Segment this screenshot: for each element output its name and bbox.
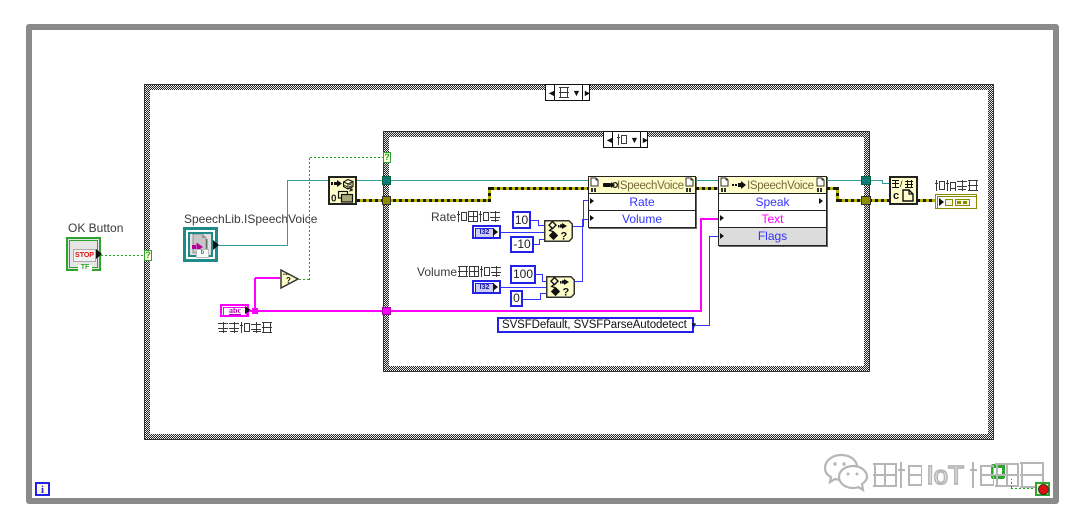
property node ISpeechVoice bbox=[588, 176, 696, 228]
wire teal refnum to automation open bbox=[218, 245, 288, 246]
wire blue ring to Flags bbox=[694, 325, 710, 326]
junction bbox=[252, 308, 258, 314]
wire teal invoke to close ref bbox=[827, 180, 883, 181]
label SpeechLib.ISpeechVoice bbox=[184, 213, 317, 225]
node Empty String/Path? bbox=[280, 269, 301, 290]
svg-text:0: 0 bbox=[331, 194, 337, 204]
label Volume音量调节 bbox=[417, 266, 502, 278]
tunnel teal (inner left) bbox=[382, 176, 391, 185]
OK Button output arrow bbox=[96, 249, 102, 259]
wire error automation open to property node bbox=[357, 199, 490, 202]
wire error close ref to indicator bbox=[917, 199, 935, 202]
tunnel olive (inner right) bbox=[861, 196, 871, 205]
watermark wechat logo bbox=[822, 453, 872, 498]
watermark text 玩转IoT物联网 (outline glyphs) bbox=[872, 462, 1044, 490]
selector label True bbox=[545, 84, 590, 101]
close reference node bbox=[889, 176, 918, 205]
refnum output arrow bbox=[213, 240, 219, 250]
wire magenta up to Text input bbox=[700, 218, 702, 312]
numeric control I32 Volume bbox=[472, 280, 501, 294]
label Rate语速调节 bbox=[431, 211, 501, 223]
label OK Button bbox=[68, 222, 123, 234]
numeric constant 100 bbox=[510, 265, 536, 284]
numeric constant 0 bbox=[510, 290, 523, 307]
wires blue rate group bbox=[531, 220, 539, 221]
indicator error out bbox=[935, 194, 977, 209]
label 错误输出 bbox=[935, 180, 979, 192]
case structure (inner, False) hatched border bbox=[383, 131, 870, 372]
abort button (red dot) bbox=[1035, 482, 1050, 496]
string control output arrow bbox=[245, 306, 251, 314]
wire boolean OK Button to tunnel bbox=[101, 255, 144, 256]
wire teal property to invoke bbox=[696, 180, 718, 181]
wire error invoke to close ref bbox=[827, 187, 839, 190]
string control 文本输入区 bbox=[220, 304, 249, 317]
numeric control I32 Rate bbox=[472, 225, 501, 239]
svg-text:?: ? bbox=[561, 231, 568, 243]
tunnel magenta (inner left) bbox=[382, 307, 391, 315]
boolean control OK Button (STOP) bbox=[66, 237, 101, 271]
label 文本输入区 bbox=[218, 322, 273, 334]
numeric constant 10 bbox=[512, 211, 531, 229]
green dashed marquee near abort button bbox=[1011, 479, 1012, 488]
wire string branch up to empty-string node bbox=[254, 278, 256, 310]
selector label False bbox=[603, 131, 648, 148]
automation open node bbox=[328, 176, 357, 205]
watermark green stop behind text bbox=[991, 464, 1005, 479]
numeric constant -10 bbox=[510, 236, 534, 253]
wire boolean empty-string to inner tunnel bbox=[299, 279, 310, 280]
wire teal automation open to property node bbox=[357, 180, 588, 181]
tunnel case selector (inner, green ?) bbox=[383, 152, 391, 163]
case structure (outer, True) hatched border bbox=[144, 84, 994, 440]
node In Range and Coerce (rate) bbox=[544, 220, 573, 242]
wire error property to invoke bbox=[696, 187, 718, 190]
tunnel teal (inner right) bbox=[861, 176, 871, 185]
i icon bottom left bbox=[35, 482, 50, 496]
wire string to junction and case bbox=[249, 310, 702, 312]
svg-text:?: ? bbox=[286, 276, 291, 285]
node In Range and Coerce (volume) bbox=[546, 276, 575, 298]
wires blue volume group bbox=[536, 274, 543, 275]
automation refnum SpeechLib.ISpeechVoice bbox=[183, 227, 218, 262]
tunnel olive (inner left) bbox=[382, 196, 391, 205]
invoke node ISpeechVoice bbox=[718, 176, 827, 246]
tunnel case selector (outer, green ?) bbox=[144, 250, 152, 261]
svg-text:?: ? bbox=[563, 287, 570, 299]
wire blue IRC volume out to property Volume bbox=[574, 281, 583, 282]
wire blue IRC rate out to property Rate bbox=[573, 226, 584, 227]
ring constant SVSF bbox=[497, 317, 694, 333]
